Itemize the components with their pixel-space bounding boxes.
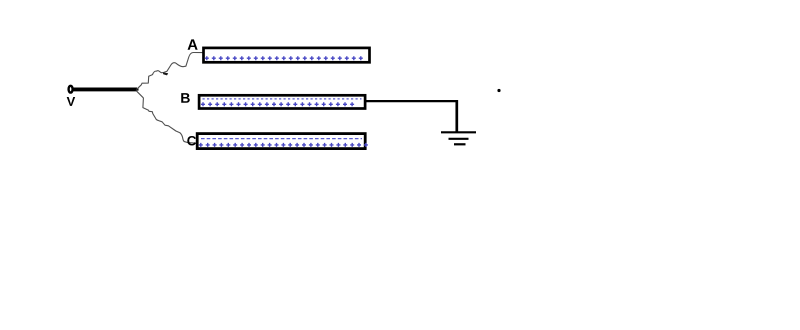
label V [67, 97, 75, 106]
plate A [204, 48, 370, 62]
node junction [133, 88, 139, 90]
plate B positive charges [201, 102, 354, 106]
terminal V (input circle) [69, 86, 73, 93]
plate C [197, 134, 365, 149]
plate C induced dashed line [201, 138, 362, 140]
plate A positive charges [205, 56, 363, 60]
plate B induced dashed line [203, 98, 362, 100]
wire vertical down to ground [455, 100, 458, 132]
label A [188, 39, 198, 49]
label B [181, 93, 190, 103]
wire plate B to ground [365, 100, 458, 102]
label C [187, 136, 196, 146]
plate C positive charges [199, 143, 368, 147]
plate B [199, 95, 365, 108]
ground symbol [441, 132, 476, 144]
node dot (stray point) [497, 89, 500, 92]
arrow mark on wire to A [163, 72, 168, 75]
wire squiggle junction to plate C [136, 91, 196, 143]
wire squiggle junction to plate A [137, 53, 203, 90]
wire feed from V terminal to junction [73, 87, 137, 91]
